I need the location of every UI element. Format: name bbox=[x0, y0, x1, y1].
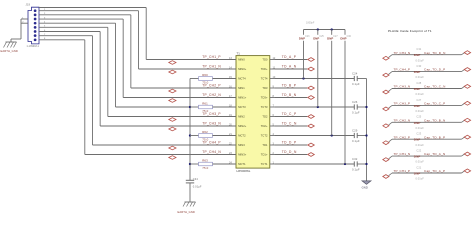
svg-text:C27: C27 bbox=[416, 98, 421, 102]
svg-text:TD_C_P: TD_C_P bbox=[282, 112, 297, 116]
svg-text:MIN1+: MIN1+ bbox=[238, 96, 247, 100]
svg-text:DNP: DNP bbox=[414, 70, 421, 74]
svg-text:MIN2+: MIN2+ bbox=[238, 124, 247, 128]
svg-text:TP_CH2_N: TP_CH2_N bbox=[202, 93, 221, 97]
svg-text:0.01uF: 0.01uF bbox=[416, 109, 425, 113]
svg-text:MIN0: MIN0 bbox=[238, 58, 245, 62]
svg-text:Cap_TD_A_N: Cap_TD_A_N bbox=[424, 152, 445, 156]
svg-text:TCT2: TCT2 bbox=[261, 134, 268, 138]
svg-text:75.0: 75.0 bbox=[202, 81, 208, 85]
svg-text:TD_C_N: TD_C_N bbox=[282, 122, 297, 126]
svg-text:0.01uF: 0.01uF bbox=[416, 177, 425, 181]
svg-text:EARTH_GND: EARTH_GND bbox=[178, 210, 195, 214]
svg-text:TP_CH1_N: TP_CH1_N bbox=[394, 152, 411, 156]
svg-text:75.0: 75.0 bbox=[202, 109, 208, 113]
svg-text:MIN0+: MIN0+ bbox=[238, 67, 247, 71]
svg-text:C27: C27 bbox=[333, 36, 338, 38]
svg-text:0.01uF: 0.01uF bbox=[416, 143, 425, 147]
svg-text:Cap_TD_B_N: Cap_TD_B_N bbox=[424, 118, 445, 122]
svg-text:75.0: 75.0 bbox=[202, 138, 208, 142]
svg-text:DNP: DNP bbox=[414, 53, 421, 57]
svg-text:TP_CH2_P: TP_CH2_P bbox=[394, 135, 411, 139]
svg-text:1-1X9018-1: 1-1X9018-1 bbox=[27, 46, 40, 48]
svg-text:0.01uF: 0.01uF bbox=[416, 126, 425, 130]
svg-text:C22: C22 bbox=[416, 149, 421, 153]
svg-text:J19: J19 bbox=[26, 3, 31, 7]
svg-text:TD_B_N: TD_B_N bbox=[282, 93, 297, 97]
svg-text:C26: C26 bbox=[352, 100, 358, 104]
svg-text:C28: C28 bbox=[416, 81, 421, 85]
svg-text:T1: T1 bbox=[237, 51, 241, 55]
svg-text:TP_CH2_N: TP_CH2_N bbox=[394, 118, 411, 122]
svg-text:TP_CH1_P: TP_CH1_P bbox=[394, 169, 411, 173]
svg-text:DNP: DNP bbox=[414, 87, 421, 91]
svg-text:1000pF: 1000pF bbox=[306, 21, 315, 24]
svg-text:C30: C30 bbox=[416, 64, 421, 68]
svg-text:R62: R62 bbox=[202, 130, 208, 134]
svg-text:TD3+: TD3+ bbox=[261, 96, 268, 100]
svg-text:TP_CH1_N: TP_CH1_N bbox=[202, 65, 221, 69]
svg-text:Cap_TD_D_N: Cap_TD_D_N bbox=[424, 51, 446, 55]
svg-text:MIN3+: MIN3+ bbox=[238, 153, 247, 157]
svg-text:0.01µF: 0.01µF bbox=[193, 184, 202, 188]
svg-text:DNP: DNP bbox=[414, 172, 421, 176]
svg-text:TP_CH4_N: TP_CH4_N bbox=[394, 51, 411, 55]
svg-text:0.01uF: 0.01uF bbox=[416, 58, 425, 62]
svg-text:MIN1: MIN1 bbox=[238, 86, 245, 90]
svg-text:TP_CH4_N: TP_CH4_N bbox=[202, 150, 221, 154]
svg-text:MCT4: MCT4 bbox=[238, 77, 246, 81]
svg-text:0.01uF: 0.01uF bbox=[416, 160, 425, 164]
svg-text:C25: C25 bbox=[319, 36, 324, 38]
svg-text:C21: C21 bbox=[416, 165, 421, 169]
svg-text:0.1µF: 0.1µF bbox=[352, 139, 360, 143]
svg-text:C32: C32 bbox=[352, 157, 358, 161]
svg-text:TD1+: TD1+ bbox=[261, 153, 268, 157]
svg-text:MCT1: MCT1 bbox=[238, 162, 246, 166]
svg-text:MIN2: MIN2 bbox=[238, 115, 245, 119]
svg-text:Cap_TD_C_N: Cap_TD_C_N bbox=[424, 85, 446, 89]
svg-text:Cap_TD_B_P: Cap_TD_B_P bbox=[424, 135, 445, 139]
svg-text:Cap_TD_D_P: Cap_TD_D_P bbox=[424, 68, 445, 72]
svg-text:TP_CH3_N: TP_CH3_N bbox=[394, 85, 411, 89]
svg-text:TD_A_P: TD_A_P bbox=[282, 55, 297, 59]
svg-text:TD_D_N: TD_D_N bbox=[282, 150, 297, 154]
svg-text:Cap_TD_C_P: Cap_TD_C_P bbox=[424, 102, 445, 106]
svg-text:TD0: TD0 bbox=[262, 58, 268, 62]
svg-text:DNP: DNP bbox=[414, 155, 421, 159]
svg-text:0.1µF: 0.1µF bbox=[352, 82, 360, 86]
svg-text:TP_CH4_P: TP_CH4_P bbox=[394, 68, 411, 72]
svg-text:HX5008NL: HX5008NL bbox=[237, 169, 251, 173]
svg-text:DNP: DNP bbox=[414, 121, 421, 125]
svg-text:TD2+: TD2+ bbox=[261, 124, 268, 128]
svg-text:0.01uF: 0.01uF bbox=[416, 92, 425, 96]
svg-text:TP_CH3_N: TP_CH3_N bbox=[202, 122, 221, 126]
svg-text:DNP: DNP bbox=[414, 104, 421, 108]
svg-text:R60: R60 bbox=[202, 73, 208, 77]
svg-text:TD_B_P: TD_B_P bbox=[282, 84, 297, 88]
svg-text:TP_CH1_P: TP_CH1_P bbox=[202, 55, 220, 59]
svg-text:TCT4: TCT4 bbox=[261, 77, 268, 81]
svg-text:MCT3: MCT3 bbox=[238, 105, 246, 109]
svg-text:GND: GND bbox=[362, 186, 368, 190]
svg-text:TCT1: TCT1 bbox=[261, 162, 268, 166]
svg-text:TD_A_N: TD_A_N bbox=[282, 65, 297, 69]
svg-text:TD1: TD1 bbox=[262, 143, 268, 147]
svg-text:TD3: TD3 bbox=[262, 86, 268, 90]
svg-text:Cap_TD_A_P: Cap_TD_A_P bbox=[424, 169, 445, 173]
svg-text:C30: C30 bbox=[347, 36, 352, 38]
svg-text:TCT3: TCT3 bbox=[261, 105, 268, 109]
svg-text:PLACE Inside Footprint of T1: PLACE Inside Footprint of T1 bbox=[388, 29, 432, 33]
svg-text:TP_CH3_P: TP_CH3_P bbox=[394, 102, 411, 106]
svg-text:TD2: TD2 bbox=[262, 115, 268, 119]
svg-text:C34: C34 bbox=[193, 177, 199, 181]
svg-text:0.1µF: 0.1µF bbox=[352, 110, 360, 114]
svg-text:C31: C31 bbox=[416, 47, 421, 51]
svg-text:C24: C24 bbox=[352, 72, 358, 76]
svg-text:R61: R61 bbox=[202, 101, 208, 105]
svg-text:C25: C25 bbox=[416, 115, 421, 119]
svg-text:TD0+: TD0+ bbox=[261, 67, 268, 71]
svg-text:TD_D_P: TD_D_P bbox=[282, 141, 297, 145]
svg-text:75.0: 75.0 bbox=[202, 166, 208, 170]
svg-text:R63: R63 bbox=[202, 158, 208, 162]
svg-text:DNP: DNP bbox=[414, 138, 421, 142]
svg-text:C23: C23 bbox=[305, 36, 310, 38]
svg-text:MCT2: MCT2 bbox=[238, 134, 246, 138]
svg-text:0.01uF: 0.01uF bbox=[416, 75, 425, 79]
svg-text:EARTH_GND: EARTH_GND bbox=[1, 49, 18, 53]
svg-text:MIN3: MIN3 bbox=[238, 143, 245, 147]
svg-text:C23: C23 bbox=[416, 132, 421, 136]
svg-text:0.1µF: 0.1µF bbox=[352, 167, 360, 171]
svg-text:C29: C29 bbox=[352, 129, 358, 133]
